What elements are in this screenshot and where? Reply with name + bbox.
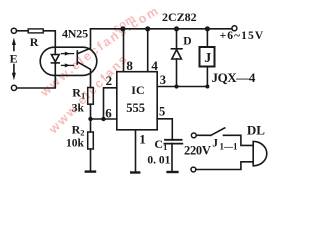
ground G3 C1 (166, 171, 178, 173)
svg-text:+6~15V: +6~15V (220, 30, 265, 42)
wire C1 to ground (171, 144, 173, 171)
capacitor C1 top plate (165, 139, 182, 141)
phototransistor emitter (77, 62, 90, 88)
svg-text:2CZ82: 2CZ82 (162, 10, 197, 24)
junction dot pin4 (145, 26, 150, 31)
svg-text:1: 1 (139, 131, 146, 146)
svg-text:R: R (30, 35, 39, 49)
relay coil J box (200, 47, 215, 67)
capacitor C1 bottom plate (164, 143, 182, 145)
top rail (91, 28, 232, 30)
junction dot relay top (205, 26, 210, 31)
svg-text:4N25: 4N25 (62, 26, 88, 40)
svg-text:555: 555 (126, 101, 145, 115)
arrowhead light 2 (65, 63, 70, 67)
LED cathode bar (51, 62, 59, 64)
relay coil riser (206, 29, 208, 47)
svg-text:8: 8 (126, 58, 133, 73)
svg-text:E: E (10, 52, 18, 66)
junction dot pin8 (120, 26, 125, 31)
resistor R2 (88, 132, 94, 149)
terminal 220V top (191, 133, 196, 138)
wire bell bottom to terminal (196, 162, 252, 170)
arrow E up shaft (13, 43, 15, 51)
relay coil bottom lead (206, 67, 208, 87)
phototransistor base bar (76, 51, 78, 64)
pin 3 wire (157, 86, 207, 88)
arrowhead light 1 (65, 52, 70, 56)
svg-text:4: 4 (151, 58, 158, 73)
svg-text:JQX—4: JQX—4 (212, 70, 256, 85)
LED cathode lead (54, 63, 56, 76)
diode D anode lead (176, 59, 178, 87)
wire to switch (196, 134, 211, 136)
diode D triangle (172, 50, 182, 59)
wire terminal to R (17, 30, 28, 32)
phototransistor collector (77, 29, 90, 54)
wire R2 to ground (90, 149, 92, 170)
resistor R (28, 29, 43, 33)
svg-text:6: 6 (105, 106, 112, 121)
optocoupler 4N25 body (40, 47, 97, 75)
svg-text:J: J (212, 138, 218, 150)
junction dot diode top (174, 26, 179, 31)
terminal 220V bottom (191, 167, 196, 172)
switch J1-1 blade (211, 128, 225, 135)
resistor R1 (88, 88, 94, 105)
svg-text:J: J (204, 51, 211, 66)
diode D riser from rail (176, 29, 178, 49)
wire LED cathode to bottom terminal (17, 75, 56, 88)
junction dot diode bottom (174, 84, 178, 88)
wire junction to R2 (90, 119, 92, 132)
svg-text:3k: 3k (72, 102, 85, 114)
LED triangle (51, 55, 59, 62)
junction dot pin2 tie (101, 117, 105, 121)
pin 5 stub (157, 119, 172, 140)
pin 8 riser (123, 29, 125, 72)
svg-text:D: D (183, 35, 191, 47)
pin 2 stub and tie to pin 6 (104, 88, 117, 119)
svg-text:5: 5 (159, 105, 165, 119)
ground G1 below R2 (85, 170, 97, 172)
terminal input bottom (11, 85, 16, 90)
IC 555 box (117, 72, 157, 130)
svg-text:IC: IC (131, 83, 144, 97)
LED anode lead (54, 47, 56, 54)
junction dot R1-R2 (88, 117, 92, 121)
light arrow 2 shaft (62, 64, 74, 66)
svg-text:1—1: 1—1 (220, 142, 239, 152)
wire switch to bell top (224, 135, 253, 145)
arrowhead E up (12, 38, 16, 45)
svg-text:220V: 220V (184, 144, 211, 158)
wire R to LED anode corner (44, 31, 56, 47)
terminal input top (11, 28, 16, 33)
ground G2 pin1 (130, 171, 140, 173)
svg-text:2: 2 (106, 73, 113, 88)
svg-text:10k: 10k (66, 137, 85, 149)
pin 1 riser (135, 130, 137, 172)
pin 6 wire (91, 118, 117, 120)
svg-text:DL: DL (247, 123, 265, 138)
light arrow 1 shaft (62, 53, 74, 55)
arrowhead E down (12, 73, 16, 80)
arrow E down shaft (13, 65, 15, 73)
bell DL body (253, 141, 267, 165)
diode D cathode bar (171, 48, 182, 50)
pin 4 riser (147, 29, 149, 72)
junction dot relay bottom (205, 85, 209, 89)
wire R1 to junction (90, 104, 92, 119)
svg-text:0. 01: 0. 01 (147, 155, 170, 167)
terminal +V (232, 26, 237, 31)
svg-text:3: 3 (160, 73, 166, 87)
